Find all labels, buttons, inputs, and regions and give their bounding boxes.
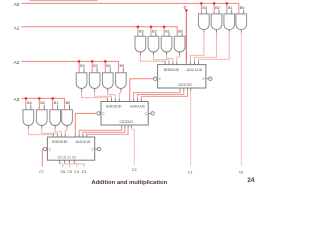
wire output stub G34 <box>120 88 122 91</box>
pin stub U3 carry-in <box>95 148 98 150</box>
pin stub U2 carry-in <box>148 112 151 114</box>
svg-text:A2: A2 <box>14 60 20 65</box>
svg-text:B0: B0 <box>118 105 122 109</box>
pin stub U1 top-right <box>185 61 187 64</box>
and-gate G42 (A3&middot;B2) <box>36 110 47 126</box>
node junction A2 tap 1 <box>78 60 80 62</box>
svg-text:B1: B1 <box>106 64 111 68</box>
wire output stub G44 <box>66 126 68 129</box>
svg-text:B0: B0 <box>178 29 183 33</box>
svg-text:B1: B1 <box>54 101 59 105</box>
svg-text:B3: B3 <box>27 101 32 105</box>
svg-text:B2: B2 <box>93 64 98 68</box>
wire G11 output to U1 pin <box>190 33 203 62</box>
pin stub U1 top-left <box>172 61 174 64</box>
and-gate G33 (A2&middot;B1) <box>102 73 113 89</box>
svg-text:A0: A0 <box>14 2 20 7</box>
wire U3 S2 to C5 <box>65 163 70 167</box>
svg-text:A1: A1 <box>14 25 20 30</box>
pin stub U3 top-right <box>86 134 88 137</box>
pin circle U3 carry-out <box>43 147 46 150</box>
wire G14 output to C0 <box>240 33 242 166</box>
wire output stub G24 <box>179 52 181 55</box>
wire net A2 horizontal <box>22 61 119 72</box>
pin stub U1 top-left <box>168 61 170 64</box>
pin stub U1 bottom <box>187 88 189 91</box>
svg-text:C2: C2 <box>132 168 137 172</box>
svg-text:C1: C1 <box>67 155 71 159</box>
wire B1 stub row A0 <box>231 10 233 14</box>
wire A1 drop to gate 1 <box>137 28 139 37</box>
svg-text:A0: A0 <box>87 140 91 144</box>
node junction A1 tap 3 <box>163 26 165 28</box>
wire B3 stub row A1 <box>142 33 144 36</box>
adder U3 4-bit box <box>47 137 94 160</box>
wire B2 stub row A3 <box>43 105 45 110</box>
top border line <box>30 0 98 2</box>
wire A1 drop to gate 2 <box>150 28 152 37</box>
and-gate G23 (A1&middot;B1) <box>161 36 172 52</box>
wire U3 S1 to C4 <box>69 163 76 167</box>
svg-text:A3: A3 <box>14 97 20 102</box>
node junction A1 tap 1 <box>137 26 139 28</box>
wire A2 drop to gate 3 <box>104 62 106 72</box>
and-gate G21 (A1&middot;B3) <box>135 36 146 52</box>
node constant 0 endpoint <box>185 9 187 11</box>
node junction A2 tap 2 <box>91 60 93 62</box>
svg-text:B0: B0 <box>66 101 71 105</box>
svg-text:B2: B2 <box>152 29 157 33</box>
wire A2 drop to gate 1 <box>78 62 80 72</box>
and-gate G22 (A1&middot;B2) <box>148 36 159 52</box>
wire G44 output to U3 pin <box>65 129 67 134</box>
wire B0 stub row A2 <box>122 68 124 73</box>
wire A1 drop to gate 3 <box>163 28 165 37</box>
wire B0 stub row A0 <box>243 10 245 14</box>
wire B1 stub row A3 <box>57 105 59 110</box>
svg-text:B1: B1 <box>228 6 233 10</box>
adder U2 4-bit box <box>101 102 148 126</box>
wire U2 carry-out to U3 <box>75 113 97 133</box>
and-gate G13 (A0&middot;B1) <box>224 14 235 30</box>
wire A0 drop to gate 1 <box>200 4 202 14</box>
pin stub U2 top-right <box>136 98 138 101</box>
and-gate G31 (A2&middot;B3) <box>76 73 87 89</box>
and-gate G12 (A0&middot;B2) <box>211 14 222 30</box>
pin stub U1 top-right <box>194 61 196 64</box>
node junction A2 tap 3 <box>104 60 106 62</box>
wire output stub G22 <box>152 52 154 55</box>
svg-text:C7: C7 <box>39 170 44 174</box>
svg-text:B0: B0 <box>119 64 124 68</box>
wire U3 S0 to C3 <box>74 163 84 167</box>
wire B3 stub row A3 <box>30 105 32 110</box>
node junction A0 tap 3 <box>226 2 228 4</box>
svg-text:C1: C1 <box>188 170 193 174</box>
wire B0 stub row A1 <box>181 33 183 36</box>
and-gate G34 (A2&middot;B0) <box>116 73 127 89</box>
wire B3 stub row A0 <box>205 10 207 14</box>
svg-text:C3: C3 <box>57 155 61 159</box>
wire B2 stub row A0 <box>218 10 220 14</box>
pin stub U2 bottom <box>121 125 123 128</box>
wire U1 S0 to C1 <box>190 91 192 166</box>
wire B0 stub row A3 <box>69 105 71 110</box>
pin stub U2 bottom <box>130 125 132 128</box>
pin circle U2 carry-out <box>97 112 100 115</box>
svg-text:C2: C2 <box>62 155 66 159</box>
wire U1 S3 to U2 <box>134 91 181 98</box>
svg-text:C3: C3 <box>82 170 87 174</box>
wire B3 stub row A2 <box>83 68 85 73</box>
wire A2 drop to gate 2 <box>91 62 93 72</box>
pin stub U2 bottom <box>124 125 126 128</box>
wire B2 stub row A2 <box>96 68 98 73</box>
wire A0 drop to gate 2 <box>213 4 215 14</box>
wire G43 output to U3 pin <box>55 129 61 134</box>
pin circle U1 carry-out <box>154 77 157 80</box>
pin circle U2 carry-in <box>151 112 154 115</box>
pin stub U1 bottom <box>179 88 181 91</box>
svg-text:B0: B0 <box>240 6 245 10</box>
wire U1 S1 to U2 <box>141 91 187 98</box>
svg-text:C5: C5 <box>67 170 72 174</box>
pin stub U3 top-right <box>74 134 76 137</box>
wire U2 S3 to U3 <box>79 128 122 134</box>
svg-text:C0: C0 <box>72 155 76 159</box>
wire output stub G32 <box>94 88 96 91</box>
wire G22 output to U1 pin <box>153 55 169 61</box>
node junction A3 tap 1 <box>25 97 27 99</box>
wire output stub G41 <box>27 126 29 129</box>
svg-text:C0: C0 <box>239 170 244 174</box>
wire output stub G13 <box>228 30 230 33</box>
and-gate G14 (A0&middot;B0) <box>236 14 247 30</box>
wire G12 output to U1 pin <box>195 33 217 62</box>
wire output stub G21 <box>139 52 141 55</box>
pin stub U2 top-left <box>114 98 116 101</box>
wire output stub G33 <box>107 88 109 91</box>
wire G23 output to U1 pin <box>167 55 173 61</box>
and-gate G43 (A3&middot;B1) <box>50 110 61 126</box>
pin stub U1 bottom <box>190 88 192 91</box>
pin stub U3 bottom <box>59 160 61 163</box>
adder U1 4-bit box <box>158 65 206 88</box>
pin stub U3 bottom <box>73 160 75 163</box>
pin circle U3 carry-in <box>97 147 100 150</box>
wire G21 output to U1 pin <box>140 55 165 61</box>
wire output stub G31 <box>81 88 83 91</box>
wire U3 carry-out to C7 <box>42 149 43 166</box>
pin stub U2 top-left <box>107 98 109 101</box>
and-gate G44 (A3&middot;B0) <box>62 110 73 126</box>
node junction A3 tap 2 <box>38 97 40 99</box>
pin stub U1 bottom <box>183 88 185 91</box>
pin stub U3 bottom <box>68 160 70 163</box>
pin stub U1 top-right <box>189 61 191 64</box>
node junction A3 tap 3 <box>52 97 54 99</box>
svg-text:B0: B0 <box>175 68 179 72</box>
svg-text:C6: C6 <box>61 170 66 174</box>
and-gate G11 (A0&middot;B3) <box>199 14 210 30</box>
svg-text:B3: B3 <box>202 6 207 10</box>
wire net A0 horizontal <box>22 3 239 14</box>
wire G31 output to U2 pin <box>82 92 108 99</box>
wire G42 output to U3 pin <box>42 129 58 134</box>
wire A3 drop to gate 2 <box>38 99 40 109</box>
wire G13 output to U1 pin <box>199 33 230 62</box>
wire G33 output to U2 pin <box>108 92 116 99</box>
node junction A0 tap 1 <box>200 2 202 4</box>
svg-text:24: 24 <box>247 177 255 184</box>
pin stub U3 top-left <box>56 134 58 137</box>
svg-text:C0: C0 <box>129 120 133 124</box>
svg-text:B2: B2 <box>40 101 45 105</box>
pin stub U3 bottom <box>64 160 66 163</box>
svg-text:A0: A0 <box>141 105 145 109</box>
wire output stub G11 <box>203 30 205 33</box>
pin stub U3 top-right <box>78 134 80 137</box>
wire A0 drop to gate 3 <box>226 4 228 14</box>
wire B1 stub row A1 <box>168 33 170 36</box>
pin stub U2 top-right <box>133 98 135 101</box>
pin stub U2 top-left <box>110 98 112 101</box>
pin stub U1 carry-in <box>206 78 209 80</box>
pin stub U1 top-right <box>198 61 200 64</box>
wire net A3 horizontal <box>22 98 65 109</box>
svg-text:B1: B1 <box>165 29 170 33</box>
svg-text:B0: B0 <box>64 140 68 144</box>
wire B1 stub row A2 <box>109 68 111 73</box>
pin stub U1 top-left <box>176 61 178 64</box>
wire net A1 horizontal <box>22 27 178 37</box>
svg-text:C0: C0 <box>188 83 192 87</box>
wire constant 0 vertical <box>185 10 187 61</box>
wire output stub G42 <box>41 126 43 129</box>
pin stub U2 bottom <box>127 125 129 128</box>
svg-text:B3: B3 <box>139 29 144 33</box>
svg-text:Addition and multiplication: Addition and multiplication <box>91 180 167 186</box>
and-gate G41 (A3&middot;B3) <box>23 110 34 126</box>
pin stub U3 top-left <box>64 134 66 137</box>
wire U2 S1 to U3 <box>87 128 128 134</box>
wire output stub G12 <box>216 30 218 33</box>
wire U3 S3 to C6 <box>60 163 63 167</box>
pin stub U2 top-right <box>140 98 142 101</box>
svg-text:B3: B3 <box>80 64 85 68</box>
wire B2 stub row A1 <box>155 33 157 36</box>
and-gate G24 (A1&middot;B0) <box>174 36 185 52</box>
pin stub U2 top-left <box>118 98 120 101</box>
svg-text:B2: B2 <box>215 6 220 10</box>
svg-text:A0: A0 <box>199 68 203 72</box>
node junction A0 tap 2 <box>213 2 215 4</box>
wire output stub G43 <box>54 126 56 129</box>
wire A3 drop to gate 1 <box>25 99 27 109</box>
wire U1 S2 to U2 <box>137 91 183 98</box>
pin stub U3 top-left <box>53 134 55 137</box>
pin stub U1 top-left <box>164 61 166 64</box>
wire output stub G23 <box>166 52 168 55</box>
pin stub U2 top-right <box>129 98 131 101</box>
wire output stub G14 <box>240 30 242 33</box>
wire G24 output to U1 pin <box>177 55 180 61</box>
wire U1 carry-out to U2 <box>130 79 154 99</box>
wire A3 drop to gate 3 <box>52 99 54 109</box>
wire U2 S0 to C2 <box>131 128 134 165</box>
pin stub U3 top-left <box>60 134 62 137</box>
pin stub U3 top-right <box>82 134 84 137</box>
node junction A1 tap 2 <box>150 26 152 28</box>
wire G34 output to U2 pin <box>119 92 121 99</box>
wire G41 output to U3 pin <box>28 129 53 135</box>
svg-text:C4: C4 <box>74 170 79 174</box>
pin circle U1 carry-in <box>209 77 212 80</box>
wire U2 S2 to U3 <box>83 128 125 134</box>
and-gate G32 (A2&middot;B2) <box>89 73 100 89</box>
wire G32 output to U2 pin <box>95 92 112 99</box>
